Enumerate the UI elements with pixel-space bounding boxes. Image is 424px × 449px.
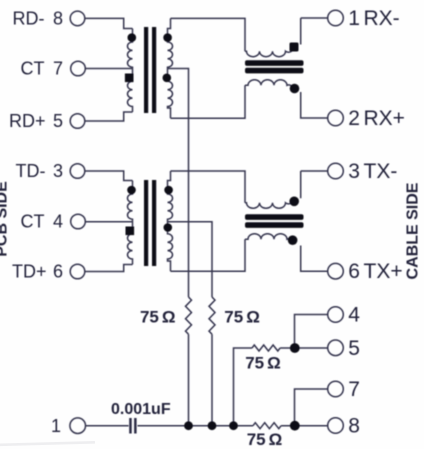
choke L2 top winding [245, 200, 293, 208]
svg-text:PCB SIDE: PCB SIDE [0, 181, 11, 257]
L2 core [245, 214, 304, 220]
pin 6 circle [70, 264, 85, 279]
svg-text:TD+: TD+ [12, 261, 47, 281]
junction dot bus x188 [184, 421, 193, 430]
svg-text:CABLE SIDE: CABLE SIDE [405, 182, 422, 279]
junction dot bus x233 [229, 421, 238, 430]
svg-text:7: 7 [348, 378, 360, 401]
junction dot bus x212 [208, 421, 217, 430]
svg-text:75Ω: 75Ω [224, 307, 260, 326]
wire T2 secondary bottom to L2 [171, 239, 246, 271]
svg-text:6: 6 [53, 261, 63, 281]
wire L2 top to pin3 TX- [301, 171, 328, 198]
wire node A to pin5 [295, 347, 328, 349]
L1 phase dot bottom [290, 84, 300, 94]
T2 phase dot upper left [127, 186, 136, 195]
transformer T1 secondary winding [168, 18, 173, 118]
choke L1 top winding [245, 49, 293, 57]
svg-text:6: 6 [348, 260, 360, 283]
wire pin1 to capacitor C1 [86, 425, 129, 427]
svg-text:5: 5 [348, 337, 360, 360]
pin 3 TX- circle [328, 163, 344, 179]
svg-text:3: 3 [53, 161, 63, 181]
L2 phase dot bottom [288, 235, 298, 245]
wire R2 bottom to bus [211, 334, 213, 426]
capacitor C1 plates [129, 418, 136, 434]
wire L1 top to pin1 RX- [301, 18, 328, 45]
wire pin8 to T1 primary top [85, 18, 133, 28]
svg-text:3: 3 [348, 160, 360, 183]
wire bus up to R3 [234, 348, 253, 426]
pin 6 TX+ circle [328, 263, 344, 279]
resistor R2 75ohm vertical [209, 297, 215, 334]
junction node A [290, 343, 300, 353]
resistor R3 75ohm horizontal [252, 345, 280, 351]
svg-text:7: 7 [53, 58, 63, 78]
wire R4 to pin8 [281, 425, 328, 427]
transformer T2 secondary winding [168, 171, 173, 271]
wire node A to pin4 [295, 315, 328, 349]
wire T2 secondary top to L2 [171, 171, 246, 203]
wire pin6 to T2 primary bottom [85, 265, 133, 272]
T2 phase dot lower right [164, 223, 173, 232]
junction node B [290, 421, 300, 431]
choke L1 bottom winding [245, 80, 293, 88]
resistor R1 75ohm vertical [186, 297, 192, 334]
pin 3 circle [70, 164, 85, 179]
T1 phase dot upper left [128, 33, 137, 42]
svg-text:8: 8 [348, 415, 360, 438]
wire R3 to node A [280, 347, 294, 349]
svg-text:RD+: RD+ [9, 111, 46, 131]
pin 7 circle [328, 381, 344, 397]
transformer T2 primary winding [128, 181, 133, 265]
svg-text:75Ω: 75Ω [247, 430, 283, 449]
wire pin4 to T2 primary center tap [86, 221, 133, 223]
svg-text:1: 1 [348, 7, 360, 30]
svg-text:RD-: RD- [13, 8, 45, 28]
svg-text:75Ω: 75Ω [245, 354, 281, 373]
pin 8 circle [70, 11, 85, 26]
wire T1 secondary bottom to L1 [171, 85, 246, 118]
svg-text:RX+: RX+ [364, 107, 405, 130]
L2 phase dot top [289, 197, 299, 207]
T2 phase dot lower left [126, 227, 135, 236]
svg-text:75Ω: 75Ω [140, 308, 176, 327]
svg-text:CT: CT [21, 58, 45, 78]
wire pin5 to T1 primary bottom [85, 112, 133, 121]
pin 7 circle [71, 61, 86, 76]
wire L2 bottom to pin6 TX+ [301, 246, 328, 272]
T2 core [144, 180, 148, 266]
transformer T1 primary winding [127, 29, 132, 113]
svg-text:1: 1 [51, 416, 61, 436]
pin 5 circle [328, 340, 344, 356]
wire R1 bottom to bus [188, 334, 190, 426]
choke L2 bottom winding [245, 234, 293, 242]
pin 1 RX- circle [328, 10, 344, 26]
pin 2 RX+ circle [328, 110, 344, 126]
svg-text:4: 4 [53, 211, 63, 231]
T2 phase dot upper right [164, 186, 173, 195]
wire capacitor C1 to bus [138, 425, 254, 427]
pin 4 circle [71, 214, 86, 229]
svg-text:5: 5 [53, 111, 63, 131]
wire pin7 to T1 primary center tap [86, 68, 133, 70]
svg-text:TX+: TX+ [364, 260, 403, 283]
svg-text:4: 4 [348, 304, 360, 327]
svg-text:CT: CT [21, 211, 45, 231]
T1 core [144, 27, 148, 113]
T1 phase dot upper right [163, 33, 172, 42]
svg-text:TD-: TD- [16, 161, 46, 181]
svg-text:RX-: RX- [364, 7, 400, 30]
wire L1 bottom to pin2 RX+ [301, 92, 328, 118]
pin 1 circle [70, 418, 86, 434]
wire T2 secondary CT down to R2 [173, 222, 213, 297]
L1 phase dot top (square) [290, 43, 299, 52]
svg-text:TX-: TX- [364, 160, 398, 183]
svg-text:8: 8 [53, 8, 63, 28]
T1 phase dot lower right [163, 74, 172, 83]
wire T1 secondary top to L1 [171, 18, 246, 51]
wire pin3 to T2 primary top [85, 171, 133, 181]
pin 8 circle [328, 418, 344, 434]
wire T1 secondary CT down to R1 [173, 69, 189, 298]
pin 4 circle [328, 307, 344, 323]
pin 5 circle [70, 114, 85, 129]
svg-text:2: 2 [348, 107, 360, 130]
wire node B to pin7 [295, 389, 328, 426]
L1 core [245, 60, 304, 66]
T1 phase dot lower left [125, 74, 134, 83]
svg-text:0.001uF: 0.001uF [111, 401, 171, 418]
resistor R4 75ohm horizontal on bus [253, 423, 281, 429]
